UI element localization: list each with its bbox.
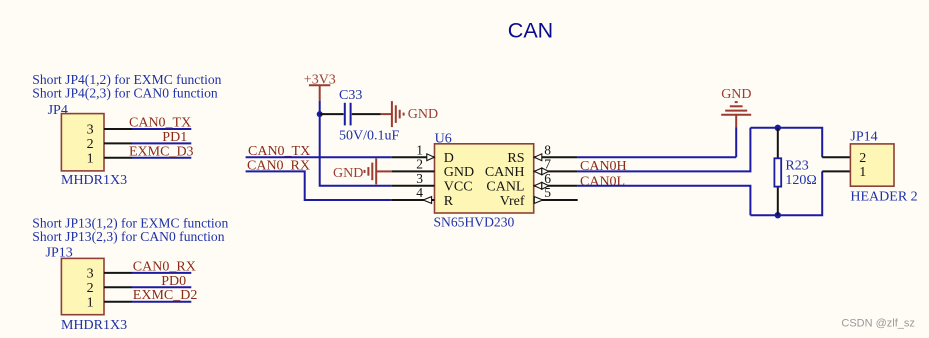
svg-text:CANL: CANL xyxy=(486,180,524,195)
U6 pin 6 stub xyxy=(534,185,578,187)
resistor R23 body xyxy=(774,158,781,186)
U6 pin 8 input arrow xyxy=(534,154,542,161)
ground GND (at U6 pin 2) bar 1 xyxy=(375,158,377,184)
wire bottom bus to JP14 pin 1 xyxy=(750,171,822,215)
JP4 pin 1 stub xyxy=(104,157,132,159)
svg-text:RS: RS xyxy=(507,151,524,166)
svg-text:2: 2 xyxy=(87,137,94,152)
svg-text:C33: C33 xyxy=(339,88,362,103)
junction top at R23 xyxy=(775,125,781,131)
svg-text:1: 1 xyxy=(87,295,94,310)
svg-text:1: 1 xyxy=(87,152,94,167)
wire net CAN0_TX to pin D xyxy=(246,156,392,158)
svg-text:GND: GND xyxy=(721,87,751,102)
JP14 pin 2 stub xyxy=(822,156,850,158)
U6 pin 4 output arrow xyxy=(423,197,431,204)
svg-text:8: 8 xyxy=(544,142,551,157)
wire net CAN0_RX to pin R xyxy=(246,171,392,200)
U6 pin 1 stub xyxy=(392,156,435,158)
wire GND stem to RS net xyxy=(735,128,737,158)
svg-text:CAN0L: CAN0L xyxy=(580,174,625,189)
svg-text:3: 3 xyxy=(87,123,94,138)
svg-text:4: 4 xyxy=(416,185,423,200)
svg-text:7: 7 xyxy=(544,157,551,172)
svg-text:CAN0_RX: CAN0_RX xyxy=(133,259,196,274)
ground GND (at U6 pin 2) bar 4 xyxy=(364,170,366,173)
U6 pin 2 stub xyxy=(392,170,435,172)
ground GND (at U6 pin 2) bar 3 xyxy=(367,167,369,176)
wire +3V3 vertical to VCC xyxy=(320,101,392,186)
svg-text:VCC: VCC xyxy=(444,180,473,195)
wire net PD0 at JP13 xyxy=(132,286,191,288)
svg-text:R23: R23 xyxy=(785,159,808,174)
power port +3V3 bar xyxy=(309,84,330,86)
ground GND (top right) stem xyxy=(735,115,737,128)
svg-text:3: 3 xyxy=(87,267,94,282)
junction bottom at R23 xyxy=(775,212,781,218)
U6 pin 6 bidir arrow xyxy=(534,182,542,189)
U6 pin 8 stub xyxy=(534,156,578,158)
U6 pin 7 stub xyxy=(534,170,578,172)
connector JP13 body xyxy=(61,258,104,314)
capacitor C33 plate 1 xyxy=(344,103,346,126)
JP13 pin 1 stub xyxy=(104,301,132,303)
ground GND (top right) bar 2 xyxy=(725,110,747,112)
svg-text:EXMC_D3: EXMC_D3 xyxy=(129,144,194,159)
svg-text:PD1: PD1 xyxy=(162,130,187,145)
ground GND (top right) bar 4 xyxy=(735,101,738,103)
svg-text:1: 1 xyxy=(859,165,866,180)
wire top bus to JP14 pin 2 xyxy=(750,128,822,157)
svg-text:HEADER 2: HEADER 2 xyxy=(850,189,917,204)
svg-text:1: 1 xyxy=(416,142,423,157)
capacitor C33 plate 2 xyxy=(350,103,352,126)
U6 pin 3 stub xyxy=(392,185,435,187)
svg-text:MHDR1X3: MHDR1X3 xyxy=(61,173,127,188)
svg-text:Short JP13(2,3) for CAN0 funct: Short JP13(2,3) for CAN0 function xyxy=(32,229,224,245)
ground GND (at C33) bar 1 xyxy=(391,101,393,127)
wire RS to GND xyxy=(578,156,737,158)
svg-text:Short JP4(2,3) for CAN0 functi: Short JP4(2,3) for CAN0 function xyxy=(32,86,218,102)
wire net EXMC_D3 at JP4 xyxy=(132,157,191,159)
ground GND (at U6 pin 2) stem xyxy=(376,170,392,172)
wire net CAN0H xyxy=(578,128,751,172)
svg-text:2: 2 xyxy=(87,281,94,296)
svg-text:CAN0_TX: CAN0_TX xyxy=(129,116,191,131)
svg-text:SN65HVD230: SN65HVD230 xyxy=(434,215,515,230)
resistor R23 top pin xyxy=(777,128,779,159)
U6 pin 7 bidir arrow xyxy=(534,168,542,175)
svg-text:CSDN @zlf_sz: CSDN @zlf_sz xyxy=(841,317,915,329)
capacitor C33 left pin xyxy=(320,113,344,115)
svg-text:PD0: PD0 xyxy=(161,274,186,289)
svg-text:MHDR1X3: MHDR1X3 xyxy=(61,318,127,333)
svg-text:5: 5 xyxy=(544,185,551,200)
svg-text:Vref: Vref xyxy=(500,194,525,209)
JP14 pin 1 stub xyxy=(822,170,850,172)
ground GND (at U6 pin 2) bar 2 xyxy=(371,163,373,181)
connector JP4 body xyxy=(61,114,104,171)
ground GND (at C33) bar 2 xyxy=(395,105,397,123)
U6 pin 1 input arrow xyxy=(427,154,435,161)
connector JP14 body xyxy=(850,144,894,186)
svg-text:GND: GND xyxy=(444,165,474,180)
svg-text:2: 2 xyxy=(859,151,866,166)
svg-text:2: 2 xyxy=(416,157,423,172)
JP4 pin 3 stub xyxy=(104,128,132,130)
svg-text:GND: GND xyxy=(408,107,438,122)
svg-text:EXMC_D2: EXMC_D2 xyxy=(133,288,198,303)
ground GND (at C33) stem xyxy=(381,113,391,115)
JP13 pin 2 stub xyxy=(104,286,132,288)
svg-text:50V/0.1uF: 50V/0.1uF xyxy=(339,129,400,144)
svg-text:D: D xyxy=(444,151,454,166)
capacitor C33 right pin xyxy=(352,113,381,115)
svg-text:CANH: CANH xyxy=(485,165,525,180)
U6 pin 5 output arrow xyxy=(534,197,543,204)
wire net CAN0_TX at JP4 xyxy=(132,128,191,130)
junction at +3V3 / C33 xyxy=(317,111,323,117)
ground GND (at C33) bar 3 xyxy=(399,110,401,119)
U6 pin 5 stub xyxy=(534,199,578,201)
ground GND (top right) bar 3 xyxy=(730,105,743,107)
svg-text:6: 6 xyxy=(544,171,551,186)
svg-text:3: 3 xyxy=(416,171,423,186)
JP4 pin 2 stub xyxy=(104,142,132,144)
svg-text:R: R xyxy=(444,194,454,209)
svg-text:GND: GND xyxy=(333,166,363,181)
resistor R23 bottom pin xyxy=(777,187,779,216)
wire net EXMC_D2 at JP13 xyxy=(132,301,191,303)
JP13 pin 3 stub xyxy=(104,272,132,274)
ground GND (at C33) bar 4 xyxy=(403,113,405,116)
wire net CAN0_RX at JP13 xyxy=(132,272,191,274)
svg-text:JP14: JP14 xyxy=(850,129,877,144)
IC U6 body xyxy=(435,144,534,213)
svg-text:120Ω: 120Ω xyxy=(785,173,816,188)
wire net CAN0L xyxy=(578,186,751,215)
wire net PD1 at JP4 xyxy=(132,142,191,144)
svg-text:CAN: CAN xyxy=(508,18,553,42)
power port +3V3 stem xyxy=(319,85,321,101)
U6 pin 4 stub xyxy=(392,199,435,201)
ground GND (top right) bar 1 xyxy=(721,114,751,116)
